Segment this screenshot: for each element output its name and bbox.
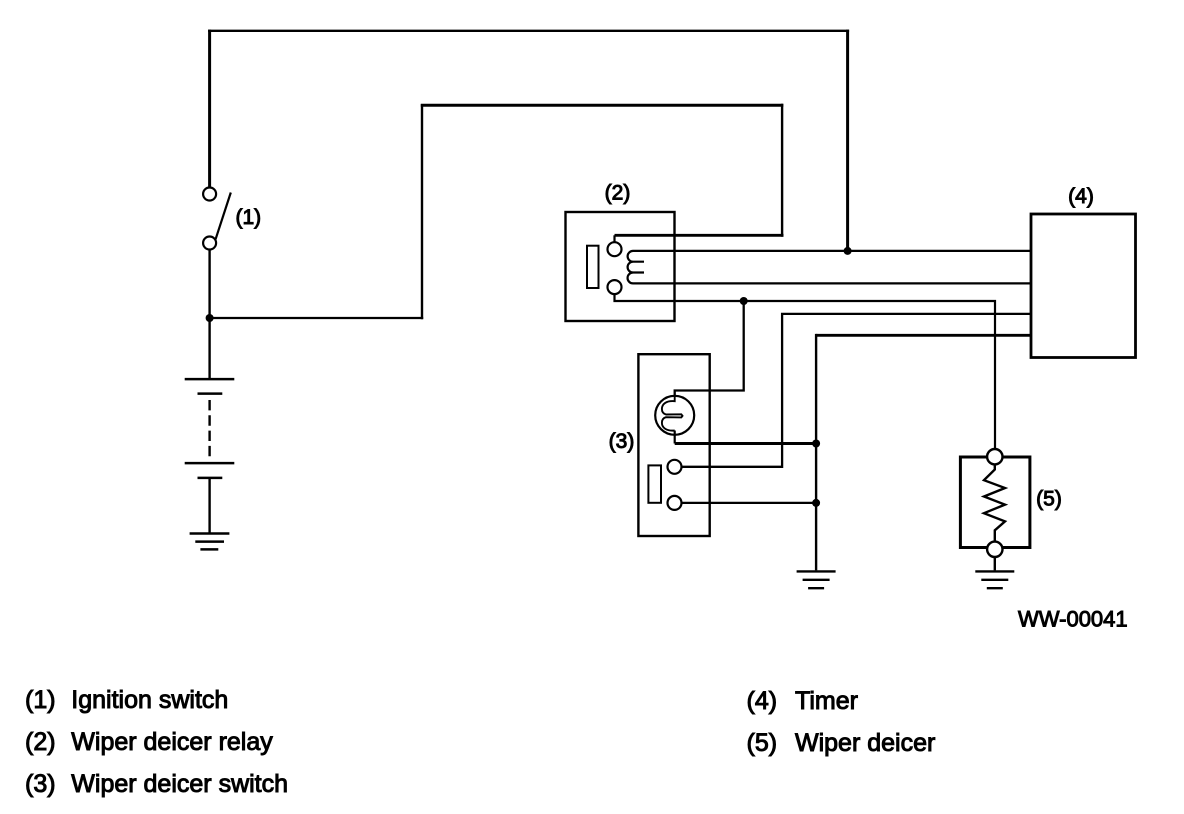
battery BAT long plate 2 [185, 462, 235, 465]
switch contact circle B [668, 496, 682, 510]
ground: battery [190, 534, 230, 550]
lamp filament [662, 396, 683, 431]
svg-text:Ignition switch: Ignition switch [71, 686, 228, 714]
wire: relay top pin feed [615, 234, 784, 237]
ground: switch/timer rail [797, 571, 836, 588]
svg-text:(1): (1) [236, 206, 262, 229]
wire: ground rail vertical [815, 334, 817, 571]
svg-text:(5): (5) [747, 729, 778, 757]
relay pin circle top [608, 242, 622, 256]
wire: relay bottom pin to wiper deicer [615, 294, 996, 449]
switch contact circle A [668, 460, 682, 474]
illumination lamp DS1 bulb [655, 396, 694, 435]
wiper deicer relay box [566, 212, 675, 321]
wire: drop to relay pin level [781, 104, 783, 237]
wire: top power rail [208, 30, 849, 32]
relay contact blade [587, 246, 599, 288]
wire: upper horizontal run [421, 104, 784, 107]
svg-text:Wiper deicer relay: Wiper deicer relay [71, 728, 273, 756]
wire: deicer to ground [994, 557, 996, 570]
node: junction dot relay output / lamp feed [740, 297, 748, 305]
battery BAT short plate 2 [198, 477, 223, 480]
wire: lamp return stub [674, 431, 676, 444]
ignition switch SW1 lower contact [203, 237, 216, 250]
node: junction dot battery/switch [206, 314, 214, 322]
svg-text:(3): (3) [609, 430, 635, 453]
svg-text:(4): (4) [747, 687, 778, 715]
svg-text:(1): (1) [25, 686, 56, 714]
svg-text:Wiper deicer switch: Wiper deicer switch [71, 770, 288, 798]
wire: switch to battery [208, 250, 210, 380]
svg-text:(5): (5) [1036, 488, 1062, 511]
svg-text:(4): (4) [1068, 185, 1094, 208]
battery BAT short plate 1 [198, 392, 223, 395]
node: junction dot main feed / coil wire [844, 247, 852, 255]
relay coil L and wires to timer [628, 251, 1031, 284]
ignition switch SW1 upper contact [203, 188, 216, 201]
wire: contact B to ground rail [682, 502, 817, 504]
battery BAT cell dashes [208, 400, 210, 456]
wiper deicer switch box [638, 354, 709, 536]
wire: timer to switch contact A [682, 314, 1032, 467]
timer U1 box [1031, 214, 1136, 358]
node: junction dot lamp return / ground rail [812, 440, 820, 448]
wire: ignition switch feed vertical [208, 30, 211, 187]
wire: lamp return to ground rail [675, 442, 816, 445]
wire: lamp feed from junction [675, 301, 744, 396]
svg-text:(2): (2) [605, 181, 631, 204]
ignition switch SW1 lever [216, 193, 231, 240]
relay pin circle bottom [608, 280, 622, 294]
wire: rail drop to relay coil junction [846, 30, 849, 251]
svg-text:(2): (2) [25, 728, 56, 756]
wiper deicer terminal circle top [987, 449, 1002, 464]
switch contact blade [648, 465, 661, 502]
wiper deicer heater resistor zigzag [984, 464, 1005, 541]
wire: junction to riser [210, 317, 424, 319]
svg-text:Wiper deicer: Wiper deicer [795, 729, 935, 757]
wire: battery to ground [208, 478, 210, 534]
wire: riser vertical [421, 104, 423, 319]
svg-text:(3): (3) [25, 770, 56, 798]
node: junction dot contact B / ground rail [812, 499, 820, 507]
ground: wiper deicer [975, 571, 1014, 588]
wiper deicer R1 box [960, 457, 1030, 548]
wiper deicer terminal circle bottom [987, 542, 1002, 557]
wire: relay top pin stub [613, 235, 615, 242]
battery BAT long plate 1 [185, 378, 235, 381]
svg-text:Timer: Timer [795, 687, 858, 715]
wire: timer to ground rail horizontal [816, 334, 1031, 337]
svg-text:WW-00041: WW-00041 [1018, 607, 1128, 632]
